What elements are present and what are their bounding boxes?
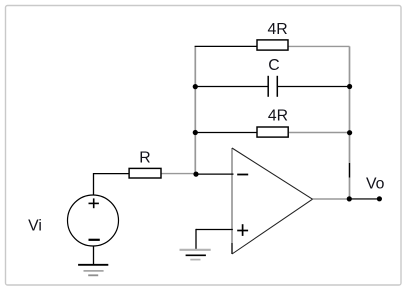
svg-text:4R: 4R <box>267 21 287 38</box>
svg-text:R: R <box>139 149 150 166</box>
svg-text:Vo: Vo <box>366 176 385 193</box>
svg-text:Vi: Vi <box>28 217 42 234</box>
svg-text:4R: 4R <box>268 108 288 125</box>
svg-text:C: C <box>268 57 279 74</box>
